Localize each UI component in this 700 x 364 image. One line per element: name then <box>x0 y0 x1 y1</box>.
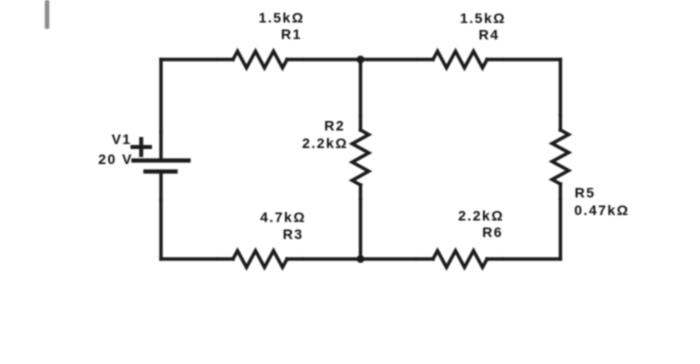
battery V1 <box>134 161 189 172</box>
pin dot R5 top <box>559 113 563 117</box>
battery plus sign <box>133 139 151 155</box>
resistor R6 <box>433 251 487 268</box>
resistor R3 <box>233 251 287 268</box>
svg-text:0.47kΩ: 0.47kΩ <box>574 202 629 218</box>
pin dot R1 left <box>216 58 220 62</box>
svg-text:20 V: 20 V <box>98 151 133 167</box>
pin dot R3 right <box>301 257 305 261</box>
svg-text:R2: R2 <box>324 117 345 133</box>
wire top-left horizontal segment <box>161 58 233 61</box>
svg-text:4.7kΩ: 4.7kΩ <box>260 209 306 225</box>
scrollbar cursor bar top-left <box>45 0 50 29</box>
svg-text:1.5kΩ: 1.5kΩ <box>460 10 506 26</box>
svg-text:V1: V1 <box>112 131 132 147</box>
svg-text:R5: R5 <box>575 185 596 201</box>
svg-text:R6: R6 <box>482 224 503 240</box>
svg-text:2.2kΩ: 2.2kΩ <box>302 135 348 151</box>
wire right vertical upper <box>559 60 562 131</box>
svg-text:R3: R3 <box>283 226 304 242</box>
pin dot R4 left <box>416 58 420 62</box>
wire left vertical upper (to battery) <box>159 60 162 159</box>
wire middle vertical lower <box>359 185 362 259</box>
wire top-middle segment <box>287 58 433 61</box>
pin dot R6 left <box>415 257 419 261</box>
junction node top (R1/R4/R2) <box>357 56 365 64</box>
wire middle vertical upper <box>359 60 362 131</box>
wire left vertical lower (battery to bottom) <box>159 174 162 260</box>
resistor R2 <box>352 130 369 185</box>
svg-text:1.5kΩ: 1.5kΩ <box>259 10 305 26</box>
pin dot R6 right <box>501 257 505 261</box>
pin dot R3 left <box>216 257 220 261</box>
svg-text:R1: R1 <box>281 26 302 42</box>
pin dot battery top <box>159 130 163 134</box>
svg-text:R4: R4 <box>479 27 500 43</box>
pin dot R2 bottom <box>359 197 363 201</box>
wire bottom-middle segment <box>287 257 433 260</box>
svg-text:2.2kΩ: 2.2kΩ <box>458 208 504 224</box>
resistor R4 <box>433 51 487 68</box>
wire bottom-right segment <box>487 257 560 260</box>
pin dot battery bottom <box>159 198 163 202</box>
wire bottom-left segment <box>161 257 233 260</box>
pin dot R1 right <box>301 58 305 62</box>
wire top-right segment <box>487 58 560 61</box>
resistor R5 <box>552 130 569 184</box>
junction node bottom (R3/R6/R2) <box>357 255 365 263</box>
pin dot R5 bottom <box>559 197 563 201</box>
wire right vertical lower <box>559 184 562 259</box>
pin dot R4 right <box>501 58 505 62</box>
pin dot R2 top <box>359 114 363 118</box>
resistor R1 <box>233 51 287 68</box>
